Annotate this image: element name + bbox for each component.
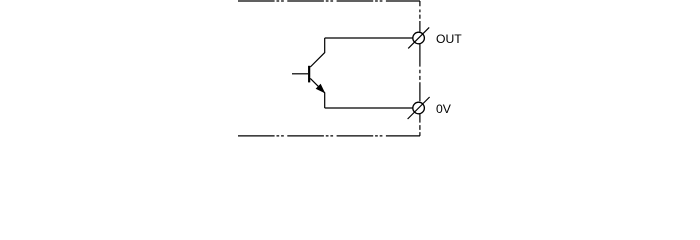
- enclosure boundary right vertical chain line lower segment: [419, 113, 421, 136]
- terminal OUT slash: [408, 27, 429, 48]
- transistor Q1 base lead wire: [292, 73, 308, 75]
- enclosure boundary bottom chain line: [238, 135, 420, 137]
- transistor Q1 emitter arrowhead: [317, 85, 325, 93]
- transistor Q1 base bar: [308, 66, 310, 83]
- enclosure boundary top chain line: [238, 0, 420, 2]
- transistor Q1 emitter line: [310, 78, 324, 108]
- enclosure boundary right vertical chain line upper segment: [419, 1, 421, 32]
- terminal 0V circle: [413, 102, 425, 114]
- terminal 0V slash: [408, 97, 430, 119]
- svg-text:0V: 0V: [436, 102, 452, 116]
- enclosure boundary right vertical chain line middle segment: [419, 44, 421, 102]
- svg-text:OUT: OUT: [436, 32, 462, 46]
- wire collector to OUT terminal: [325, 37, 413, 39]
- transistor Q1 collector line: [310, 38, 324, 67]
- wire emitter to 0V terminal: [325, 107, 413, 109]
- terminal OUT circle: [413, 32, 425, 44]
